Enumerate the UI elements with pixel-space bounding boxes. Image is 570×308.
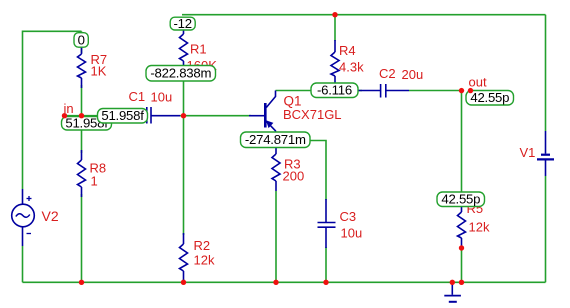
svg-text:42.55p: 42.55p [470,90,509,105]
svg-text:-274.871m: -274.871m [245,132,306,147]
svg-text:10u: 10u [341,226,363,241]
svg-text:1: 1 [91,174,98,189]
svg-text:C3: C3 [340,209,357,224]
wire R5 bottom [461,248,463,282]
resistor R3 [272,145,280,191]
wire R2 bottom [183,279,185,282]
svg-text:-822.838m: -822.838m [150,66,211,81]
junction dot in left [62,113,67,118]
wire bottom rail [23,281,546,283]
wire R7 to in node [81,85,83,116]
svg-text:4.3k: 4.3k [339,60,364,75]
wire left rail bottom [22,246,24,282]
svg-text:-6.116: -6.116 [317,83,352,98]
junction dot out box [468,88,473,93]
junction dot rail ground [450,280,455,285]
junction dot rail R3 [273,280,278,285]
wire right rail top [545,15,547,131]
node voltage box 42.55p at out [466,90,514,105]
wire C3 bottom [325,247,327,282]
wire C2 to out [409,90,462,92]
svg-text:12k: 12k [194,253,215,268]
wire in node to C1 [82,115,142,117]
svg-text:C1: C1 [129,89,146,104]
svg-text:-12: -12 [174,16,192,31]
svg-text:R1: R1 [190,42,207,57]
junction dot in right [79,113,84,118]
wire R8 bottom [81,194,83,282]
svg-text:R4: R4 [339,43,356,58]
svg-text:out: out [469,75,487,90]
junction dot rail C3 [323,280,328,285]
svg-text:42.55p: 42.55p [441,192,480,207]
ground [444,282,461,302]
resistor R2 [180,233,188,282]
wire R3 bottom [275,191,277,282]
svg-text:12k: 12k [469,220,490,235]
resistor R1 [180,28,188,68]
node voltage box -6.116 [311,83,358,98]
wire left rail top [23,31,82,189]
wire collector node behind box [311,90,362,92]
wire collector node [276,90,312,92]
resistor R5 [458,204,466,248]
resistor R4 [331,40,339,85]
svg-text:C2: C2 [379,66,396,81]
battery V1 [537,131,554,176]
resistor R8 [78,150,86,197]
svg-text:10u: 10u [151,90,173,105]
wire base node to R2 [183,116,185,235]
transistor Q1 [249,91,276,142]
wire out down to R5 [461,91,463,207]
svg-text:1K: 1K [91,64,107,79]
capacitor C1 [141,107,180,124]
capacitor C3 [318,199,336,248]
wire R8 top [81,116,83,153]
svg-text:R2: R2 [194,238,211,253]
wire node 0 to R7 [81,31,83,53]
node voltage box 0 [74,33,88,48]
junction dot rail R2 [181,280,186,285]
node voltage box 51.958f lower (in node) [62,115,112,130]
svg-text:51.958f: 51.958f [101,108,144,123]
node voltage box 42.55p at R5 [437,192,485,207]
svg-text:V2: V2 [42,208,59,224]
svg-text:20u: 20u [402,67,424,82]
resistor R7 [78,47,86,88]
capacitor C2 [358,84,409,98]
junction dot base node [181,113,186,118]
svg-text:V1: V1 [520,145,536,160]
junction dot out [459,88,464,93]
junction dot R5 bottom [459,245,464,250]
svg-text:0: 0 [78,33,85,48]
node voltage box -12 [170,16,195,31]
wire R4 top [334,15,336,41]
wire emitter node to C3 horizontal [310,141,326,201]
voltage source V2 [12,189,35,246]
svg-text:BCX71GL: BCX71GL [283,107,342,122]
wire base node vertical upper [183,81,185,116]
wire top rail [182,14,546,16]
junction dot rail R8 [79,280,84,285]
svg-text:200: 200 [283,169,305,184]
node voltage box 51.958f upper [98,108,148,123]
node voltage box -274.871m [241,132,311,148]
wire right rail bottom [545,176,547,282]
junction dot rail R5 [459,280,464,285]
junction dot top rail R4 [332,12,337,17]
node voltage box -822.838m [146,66,216,82]
wire in stub [65,115,82,117]
wire C1 to base node [180,115,251,117]
